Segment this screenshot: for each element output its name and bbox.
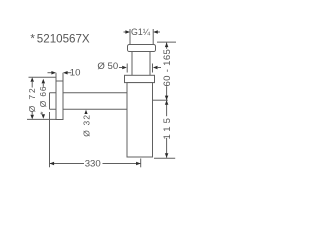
svg-text:330: 330	[85, 159, 101, 170]
svg-text:10: 10	[70, 68, 81, 79]
svg-text:5210567X: 5210567X	[37, 32, 90, 45]
svg-text:*: *	[30, 32, 35, 45]
svg-text:Ø 32: Ø 32	[81, 114, 91, 137]
svg-text:60 - 165: 60 - 165	[162, 49, 173, 87]
svg-text:115: 115	[162, 115, 173, 140]
svg-text:* Ø 66: * Ø 66	[38, 86, 48, 115]
svg-text:Ø 72: Ø 72	[27, 86, 37, 112]
svg-text:Ø 50: Ø 50	[97, 61, 118, 72]
svg-text:G1¼: G1¼	[131, 27, 151, 37]
